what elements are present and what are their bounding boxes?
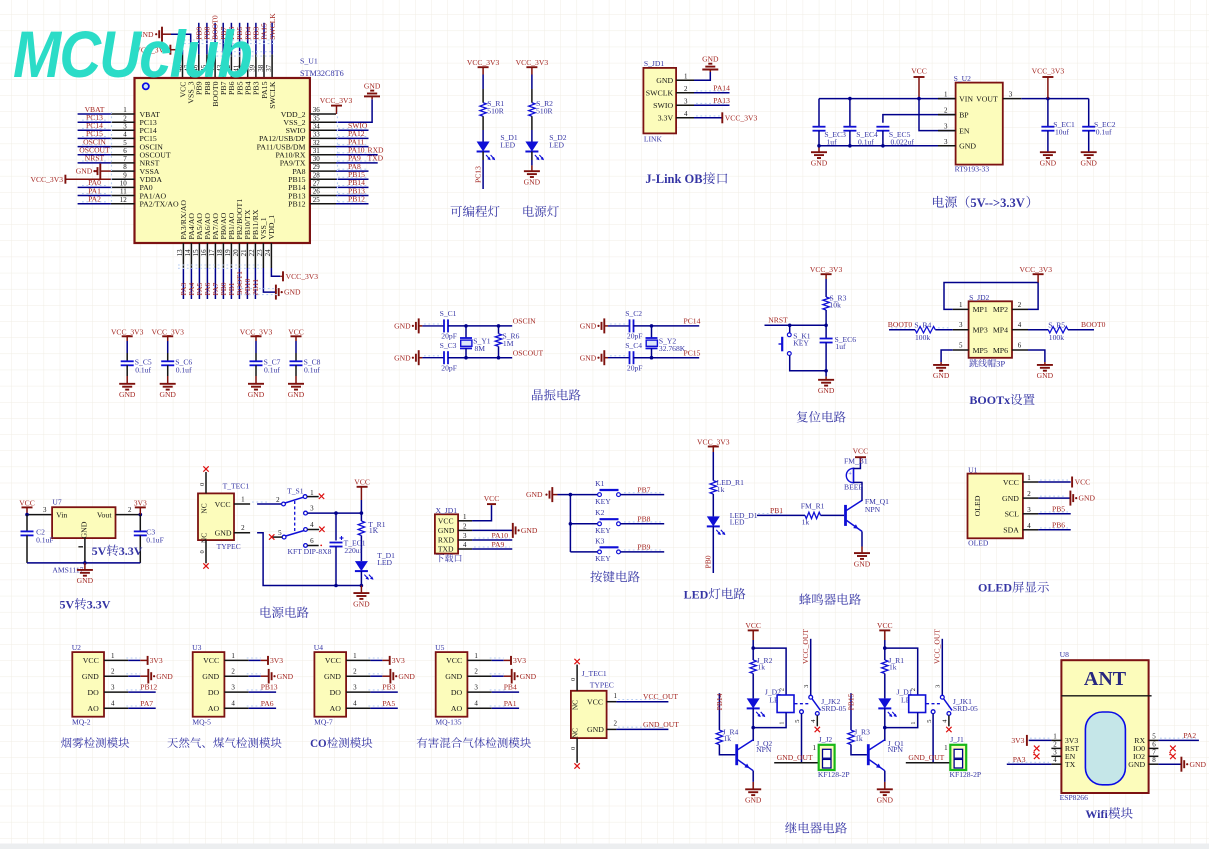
- svg-text:AO: AO: [330, 704, 342, 713]
- svg-text:5: 5: [926, 719, 933, 722]
- svg-text:+: +: [848, 470, 852, 477]
- svg-text:VCC_3V3: VCC_3V3: [516, 58, 549, 67]
- svg-text:PB8: PB8: [637, 515, 650, 524]
- svg-text:PB14: PB14: [715, 693, 724, 710]
- svg-text:1k: 1k: [855, 734, 863, 743]
- svg-text:1: 1: [123, 106, 127, 114]
- svg-text:16: 16: [200, 249, 208, 257]
- svg-text:OLED: OLED: [968, 539, 989, 548]
- svg-text:1: 1: [474, 652, 478, 660]
- svg-text:VCC_3V3: VCC_3V3: [151, 327, 184, 336]
- svg-text:GND: GND: [80, 521, 89, 538]
- svg-text:0.022uf: 0.022uf: [891, 137, 915, 146]
- svg-text:KF128-2P: KF128-2P: [950, 770, 982, 779]
- svg-text:VCC_OUT: VCC_OUT: [801, 629, 810, 664]
- svg-text:0: 0: [570, 678, 577, 681]
- svg-text:VCC: VCC: [745, 621, 761, 630]
- svg-text:1: 1: [111, 652, 115, 660]
- svg-text:VCC: VCC: [911, 67, 927, 76]
- svg-text:GND: GND: [394, 322, 411, 331]
- svg-text:3: 3: [111, 684, 115, 692]
- svg-text:4: 4: [1018, 321, 1022, 329]
- svg-text:2: 2: [241, 524, 245, 532]
- svg-text:10k: 10k: [830, 301, 842, 310]
- svg-text:3V3: 3V3: [270, 656, 283, 665]
- svg-text:3V3: 3V3: [1011, 736, 1024, 745]
- svg-text:100k: 100k: [1049, 333, 1064, 342]
- svg-text:20pF: 20pF: [441, 332, 457, 341]
- svg-text:RXD: RXD: [438, 536, 455, 545]
- svg-text:K3: K3: [595, 536, 604, 545]
- svg-text:ANT: ANT: [1084, 668, 1127, 690]
- svg-text:GND: GND: [521, 526, 538, 535]
- svg-text:0.1uF: 0.1uF: [146, 536, 164, 545]
- svg-text:OLED: OLED: [978, 581, 1012, 595]
- svg-text:PB12: PB12: [288, 200, 305, 209]
- svg-text:4: 4: [474, 700, 478, 708]
- svg-text:20: 20: [232, 249, 240, 257]
- svg-text:SWIO: SWIO: [653, 101, 673, 110]
- svg-text:MQ-7: MQ-7: [314, 718, 333, 727]
- svg-text:VCC_3V3: VCC_3V3: [697, 437, 730, 446]
- svg-text:10: 10: [120, 180, 128, 188]
- svg-text:2: 2: [778, 688, 785, 691]
- svg-text:6: 6: [310, 537, 314, 545]
- svg-text:U7: U7: [52, 498, 61, 507]
- svg-text:CO: CO: [310, 738, 327, 750]
- svg-text:1K: 1K: [369, 526, 379, 535]
- svg-text:NRST: NRST: [768, 316, 788, 325]
- svg-text:KFT DIP-8X8: KFT DIP-8X8: [288, 547, 332, 556]
- svg-text:J-Link OB: J-Link OB: [645, 172, 702, 186]
- svg-text:VIN: VIN: [959, 94, 973, 103]
- svg-text:4: 4: [231, 700, 235, 708]
- svg-text:TYPEC: TYPEC: [217, 542, 241, 551]
- svg-text:31: 31: [313, 147, 321, 155]
- svg-text:GND: GND: [520, 672, 537, 681]
- svg-text:LED: LED: [730, 518, 745, 527]
- svg-text:S_C3: S_C3: [440, 341, 457, 350]
- svg-text:2: 2: [944, 107, 948, 115]
- svg-text:FM_R1: FM_R1: [801, 502, 825, 511]
- svg-text:S_C4: S_C4: [625, 341, 642, 350]
- svg-text:PB0: PB0: [704, 555, 713, 568]
- svg-text:GND: GND: [76, 167, 93, 176]
- svg-text:2: 2: [684, 85, 688, 93]
- svg-text:0.1uf: 0.1uf: [1096, 127, 1112, 136]
- svg-text:2: 2: [474, 668, 478, 676]
- svg-text:KEY: KEY: [595, 554, 611, 563]
- svg-text:GND: GND: [1037, 371, 1054, 380]
- svg-text:KEY: KEY: [595, 526, 611, 535]
- svg-text:VOUT: VOUT: [976, 94, 998, 103]
- svg-text:PC13: PC13: [474, 166, 483, 183]
- svg-text:GND: GND: [1040, 159, 1057, 168]
- svg-text:VCC_3V3: VCC_3V3: [31, 175, 64, 184]
- svg-text:4: 4: [463, 541, 467, 549]
- svg-text:0.1uf: 0.1uf: [264, 365, 280, 374]
- svg-text:17: 17: [208, 249, 216, 257]
- svg-text:NPN: NPN: [756, 745, 772, 754]
- svg-text:4: 4: [1027, 522, 1031, 530]
- svg-text:32.768K: 32.768K: [659, 344, 686, 353]
- svg-text:1: 1: [353, 652, 357, 660]
- svg-text:GND: GND: [1002, 494, 1019, 503]
- svg-text:GND_OUT: GND_OUT: [643, 720, 679, 729]
- svg-text:BOOTx: BOOTx: [969, 393, 1010, 407]
- svg-text:BOOT0: BOOT0: [1081, 320, 1106, 329]
- svg-text:PA2/TX/AO: PA2/TX/AO: [140, 200, 180, 209]
- svg-text:6: 6: [123, 147, 127, 155]
- svg-text:Vout: Vout: [97, 510, 112, 519]
- svg-text:U3: U3: [192, 643, 201, 652]
- svg-text:DO: DO: [88, 688, 100, 697]
- svg-text:GND: GND: [656, 76, 673, 85]
- svg-text:GND: GND: [156, 672, 173, 681]
- svg-text:J_J1: J_J1: [950, 735, 964, 744]
- svg-text:23: 23: [256, 249, 264, 257]
- svg-text:5: 5: [794, 719, 801, 722]
- svg-text:GND: GND: [933, 371, 950, 380]
- svg-text:0.1uf: 0.1uf: [176, 365, 192, 374]
- svg-text:28: 28: [313, 171, 321, 179]
- svg-text:2: 2: [123, 114, 127, 122]
- svg-text:PB7: PB7: [637, 485, 650, 494]
- svg-text:14: 14: [184, 249, 192, 257]
- svg-text:SWCLK: SWCLK: [268, 13, 277, 40]
- svg-text:3: 3: [310, 505, 314, 513]
- svg-text:34: 34: [313, 123, 321, 131]
- svg-text:510R: 510R: [487, 107, 504, 116]
- svg-text:SRD-05: SRD-05: [821, 704, 846, 713]
- svg-text:3: 3: [474, 684, 478, 692]
- svg-text:3: 3: [803, 685, 810, 688]
- svg-text:0: 0: [199, 483, 206, 486]
- svg-text:LED: LED: [684, 587, 709, 601]
- svg-text:4: 4: [684, 110, 688, 118]
- svg-text:NC: NC: [571, 728, 580, 738]
- svg-text:3: 3: [463, 532, 467, 540]
- svg-text:3: 3: [231, 684, 235, 692]
- svg-text:VCC: VCC: [215, 500, 231, 509]
- svg-text:3V3: 3V3: [150, 656, 163, 665]
- svg-text:3P: 3P: [996, 359, 1005, 369]
- svg-text:MP1: MP1: [973, 305, 988, 314]
- svg-text:VCC: VCC: [354, 478, 370, 487]
- svg-text:VCC_3V3: VCC_3V3: [725, 113, 758, 122]
- svg-text:STM32C8T6: STM32C8T6: [300, 69, 344, 78]
- svg-text:1: 1: [231, 652, 235, 660]
- svg-text:S_R4: S_R4: [914, 320, 931, 329]
- svg-text:1k: 1k: [717, 485, 725, 494]
- svg-text:SCL: SCL: [1005, 510, 1020, 519]
- svg-text:7: 7: [1152, 748, 1156, 756]
- svg-text:1: 1: [944, 91, 948, 99]
- svg-text:0.1uF: 0.1uF: [36, 536, 54, 545]
- svg-text:1: 1: [241, 496, 245, 504]
- svg-text:1: 1: [1053, 732, 1057, 740]
- svg-text:3.3V: 3.3V: [87, 598, 111, 612]
- svg-text:GND: GND: [394, 353, 411, 362]
- svg-text:DO: DO: [330, 688, 342, 697]
- svg-text:2: 2: [276, 496, 280, 504]
- svg-text:K1: K1: [595, 479, 604, 488]
- svg-text:VCC: VCC: [587, 698, 603, 707]
- svg-text:KF128-2P: KF128-2P: [818, 770, 850, 779]
- svg-text:MP3: MP3: [973, 326, 988, 335]
- svg-text:OSCOUT: OSCOUT: [513, 349, 544, 358]
- svg-text:GND: GND: [1079, 494, 1096, 503]
- svg-text:11: 11: [120, 188, 127, 196]
- svg-text:1: 1: [813, 744, 817, 752]
- svg-text:VCC: VCC: [288, 327, 304, 336]
- svg-text:2: 2: [231, 668, 235, 676]
- svg-text:DO: DO: [208, 688, 220, 697]
- svg-text:PB15: PB15: [847, 693, 856, 710]
- svg-text:GND: GND: [364, 81, 381, 90]
- svg-text:VCC_OUT: VCC_OUT: [643, 692, 678, 701]
- svg-text:KEY: KEY: [793, 338, 809, 347]
- svg-text:MCUclub: MCUclub: [13, 18, 252, 91]
- svg-text:VCC: VCC: [446, 656, 462, 665]
- svg-text:1: 1: [959, 301, 963, 309]
- svg-text:3: 3: [1027, 506, 1031, 514]
- svg-text:VCC_OUT: VCC_OUT: [933, 629, 942, 664]
- svg-text:VCC: VCC: [484, 494, 500, 503]
- svg-text:8M: 8M: [475, 344, 486, 353]
- svg-text:GND: GND: [702, 54, 719, 63]
- svg-text:GND: GND: [580, 353, 597, 362]
- svg-text:21: 21: [240, 249, 248, 257]
- svg-text:U8: U8: [1060, 650, 1069, 659]
- svg-text:10uf: 10uf: [1055, 127, 1069, 136]
- svg-text:1k: 1k: [889, 663, 897, 672]
- svg-text:5V-->3.3V: 5V-->3.3V: [970, 196, 1024, 210]
- svg-text:15: 15: [192, 249, 200, 257]
- svg-text:PB3: PB3: [382, 683, 395, 692]
- svg-text:S_R5: S_R5: [1048, 320, 1065, 329]
- svg-text:S_C1: S_C1: [440, 309, 457, 318]
- svg-text:MQ-5: MQ-5: [192, 718, 211, 727]
- svg-text:GND: GND: [119, 390, 136, 399]
- svg-text:1k: 1k: [724, 734, 732, 743]
- svg-text:220uf: 220uf: [344, 546, 362, 555]
- svg-text:3: 3: [944, 138, 948, 146]
- svg-text:MQ-135: MQ-135: [435, 718, 461, 727]
- svg-text:8: 8: [1152, 756, 1156, 764]
- svg-text:VCC: VCC: [83, 656, 99, 665]
- svg-text:LED: LED: [500, 141, 515, 150]
- svg-text:5V: 5V: [60, 598, 75, 612]
- svg-text:LED: LED: [549, 141, 564, 150]
- svg-text:4: 4: [353, 700, 357, 708]
- svg-text:PA6: PA6: [261, 699, 274, 708]
- svg-text:GND: GND: [248, 390, 265, 399]
- svg-text:Vin: Vin: [56, 510, 67, 519]
- svg-text:VCC_3V3: VCC_3V3: [286, 272, 319, 281]
- svg-text:TYPEC: TYPEC: [590, 681, 614, 690]
- svg-text:3V3: 3V3: [513, 656, 526, 665]
- svg-text:2: 2: [111, 668, 115, 676]
- svg-text:32: 32: [313, 139, 321, 147]
- svg-text:1: 1: [614, 692, 618, 700]
- svg-text:Wifi: Wifi: [1085, 807, 1108, 821]
- svg-text:VCC: VCC: [877, 621, 893, 630]
- svg-text:2: 2: [1018, 301, 1022, 309]
- svg-text:SWCLK: SWCLK: [268, 81, 277, 109]
- svg-text:37: 37: [265, 64, 273, 72]
- svg-text:S_JD2: S_JD2: [969, 293, 989, 302]
- svg-text:4: 4: [123, 131, 127, 139]
- svg-text:3: 3: [123, 123, 127, 131]
- svg-text:PB13: PB13: [261, 683, 278, 692]
- svg-text:S_U2: S_U2: [954, 74, 972, 83]
- svg-text:2: 2: [1053, 740, 1057, 748]
- svg-text:2: 2: [463, 522, 467, 530]
- svg-text:25: 25: [313, 196, 321, 204]
- svg-text:0.1uf: 0.1uf: [858, 137, 874, 146]
- svg-text:20pF: 20pF: [627, 332, 643, 341]
- svg-text:K2: K2: [595, 508, 604, 517]
- svg-text:AO: AO: [451, 704, 463, 713]
- svg-text:GND: GND: [202, 672, 219, 681]
- svg-text:3.3V: 3.3V: [658, 113, 674, 122]
- svg-text:PA9: PA9: [492, 540, 505, 549]
- svg-text:GND: GND: [587, 725, 604, 734]
- svg-text:TXD: TXD: [438, 545, 454, 554]
- svg-text:GND: GND: [277, 672, 294, 681]
- svg-text:1M: 1M: [503, 339, 514, 348]
- svg-text:T_TEC1: T_TEC1: [223, 482, 250, 491]
- svg-text:GND: GND: [877, 796, 894, 805]
- svg-text:35: 35: [313, 114, 321, 122]
- svg-text:GND: GND: [959, 142, 976, 151]
- svg-text:GND: GND: [324, 672, 341, 681]
- svg-text:MP6: MP6: [993, 346, 1008, 355]
- svg-text:3: 3: [684, 97, 688, 105]
- svg-text:NPN: NPN: [888, 745, 904, 754]
- svg-text:VCC_3V3: VCC_3V3: [1032, 67, 1065, 76]
- svg-text:0: 0: [199, 550, 206, 553]
- svg-text:20pF: 20pF: [441, 363, 457, 372]
- svg-text:3: 3: [944, 123, 948, 131]
- svg-text:GND: GND: [524, 178, 541, 187]
- svg-text:J_J2: J_J2: [819, 735, 833, 744]
- svg-text:2: 2: [353, 668, 357, 676]
- svg-text:1uf: 1uf: [827, 137, 838, 146]
- svg-text:VCC_3V3: VCC_3V3: [1020, 265, 1053, 274]
- svg-text:3.3V: 3.3V: [119, 544, 143, 558]
- svg-text:3V3: 3V3: [392, 656, 405, 665]
- svg-text:PA14: PA14: [713, 84, 730, 93]
- svg-text:24: 24: [264, 249, 272, 257]
- svg-text:VCC_3V3: VCC_3V3: [240, 327, 273, 336]
- svg-text:VCC: VCC: [853, 446, 869, 455]
- svg-text:U2: U2: [72, 643, 81, 652]
- svg-text:GND: GND: [77, 576, 94, 585]
- svg-text:30: 30: [313, 155, 321, 163]
- svg-text:3: 3: [959, 321, 963, 329]
- svg-text:GND: GND: [284, 288, 301, 297]
- svg-text:GND: GND: [526, 490, 543, 499]
- svg-text:4: 4: [1053, 756, 1057, 764]
- svg-text:510R: 510R: [536, 107, 553, 116]
- svg-text:PC15: PC15: [684, 349, 701, 358]
- svg-text:BP: BP: [959, 110, 969, 119]
- svg-text:LED: LED: [377, 558, 392, 567]
- svg-text:GND: GND: [1128, 760, 1145, 769]
- svg-text:OLED: OLED: [973, 495, 982, 516]
- svg-text:GND: GND: [1080, 159, 1097, 168]
- svg-text:GND: GND: [288, 390, 305, 399]
- svg-text:5V: 5V: [92, 544, 107, 558]
- svg-text:T_S1: T_S1: [287, 486, 304, 495]
- svg-text:TX: TX: [1065, 760, 1076, 769]
- svg-text:5: 5: [278, 529, 282, 537]
- svg-text:AO: AO: [88, 704, 100, 713]
- svg-text:PA5: PA5: [382, 699, 395, 708]
- svg-text:PA2: PA2: [1183, 731, 1196, 740]
- svg-text:VCC_3V3: VCC_3V3: [810, 265, 843, 274]
- svg-text:GND: GND: [438, 526, 455, 535]
- svg-text:36: 36: [313, 106, 321, 114]
- svg-text:13: 13: [176, 249, 184, 257]
- svg-text:GND: GND: [1190, 760, 1207, 769]
- svg-text:6: 6: [1018, 342, 1022, 350]
- svg-text:12: 12: [120, 196, 128, 204]
- svg-text:GND: GND: [353, 599, 370, 608]
- svg-text:J_TEC1: J_TEC1: [582, 669, 607, 678]
- svg-text:EN: EN: [959, 126, 970, 135]
- svg-text:VCC: VCC: [325, 656, 341, 665]
- svg-text:1: 1: [778, 721, 785, 724]
- svg-text:GND: GND: [445, 672, 462, 681]
- svg-text:38: 38: [257, 64, 265, 72]
- svg-text:29: 29: [313, 163, 321, 171]
- svg-text:1uf: 1uf: [835, 342, 846, 351]
- svg-text:18: 18: [216, 249, 224, 257]
- svg-text:PB4: PB4: [504, 683, 517, 692]
- svg-text:GND: GND: [398, 672, 415, 681]
- svg-text:MQ-2: MQ-2: [72, 718, 91, 727]
- svg-text:X_JD1: X_JD1: [436, 506, 458, 515]
- svg-text:VCC: VCC: [1003, 478, 1019, 487]
- svg-text:BEEP: BEEP: [844, 483, 863, 492]
- svg-text:S_JD1: S_JD1: [644, 59, 664, 68]
- svg-text:3: 3: [43, 506, 47, 514]
- svg-text:1: 1: [310, 489, 314, 497]
- svg-text:33: 33: [313, 131, 321, 139]
- svg-text:GND_OUT: GND_OUT: [908, 753, 944, 762]
- svg-text:3: 3: [935, 685, 942, 688]
- svg-text:1k: 1k: [757, 663, 765, 672]
- svg-text:1: 1: [910, 721, 917, 724]
- svg-text:U5: U5: [435, 643, 444, 652]
- svg-text:5: 5: [123, 139, 127, 147]
- svg-text:S_C2: S_C2: [625, 309, 642, 318]
- svg-text:RT9193-33: RT9193-33: [955, 165, 990, 174]
- svg-text:1: 1: [944, 744, 948, 752]
- svg-text:3: 3: [1053, 748, 1057, 756]
- svg-text:22: 22: [248, 249, 256, 257]
- svg-text:VCC: VCC: [203, 656, 219, 665]
- svg-text:3: 3: [1009, 91, 1013, 99]
- svg-text:S_U1: S_U1: [300, 57, 318, 66]
- svg-text:GND: GND: [82, 672, 99, 681]
- svg-text:SRD-05: SRD-05: [953, 704, 978, 713]
- svg-text:OSCIN: OSCIN: [513, 317, 536, 326]
- svg-text:100k: 100k: [915, 333, 930, 342]
